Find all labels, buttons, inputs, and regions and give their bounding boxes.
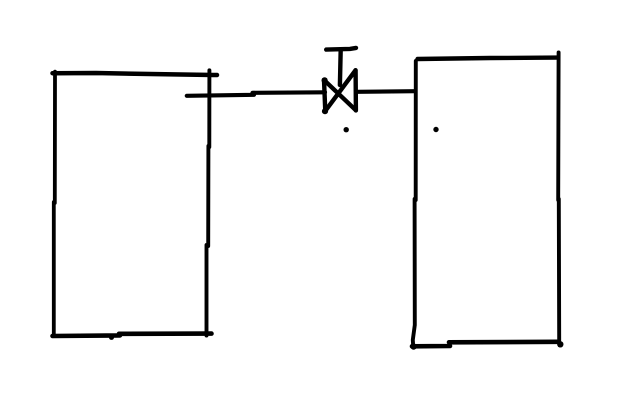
pipe wire: valve to right tank [358, 89, 416, 94]
valve body right bar [353, 70, 358, 110]
junction blob at valve bottom-left [322, 108, 328, 114]
wire: right tank left edge [413, 61, 416, 346]
wire: right tank bottom edge [412, 342, 557, 347]
valve stem [338, 50, 343, 86]
left tank T1 (rectangle) [53, 70, 218, 340]
junction blob bottom-left corner of right tank [410, 343, 416, 349]
wire: right tank right edge (with top nub) [558, 53, 559, 344]
right tank T2 (rectangle) [410, 53, 563, 350]
valve V1 [322, 48, 357, 132]
dot on bottom edge of left tank [109, 335, 114, 340]
valve body diagonal top-left to bottom-right [324, 80, 356, 110]
junction blob at valve top-left [322, 77, 328, 83]
pipe wire: left tank to valve [187, 92, 325, 96]
dot below valve [344, 127, 349, 132]
wire: left tank bottom edge [53, 334, 212, 336]
wire: left tank top edge [53, 73, 218, 75]
dot inside right tank [433, 127, 438, 132]
valve handle (T cap) [326, 48, 356, 50]
valve body diagonal bottom-left to top-right [325, 70, 355, 111]
wire: left tank right edge (with top nub) [207, 70, 210, 335]
junction blob bottom-right corner of right tank [557, 341, 563, 347]
wire: left tank left edge [54, 72, 55, 336]
wire: right tank top edge [418, 58, 559, 59]
valve body left bar [324, 80, 325, 112]
